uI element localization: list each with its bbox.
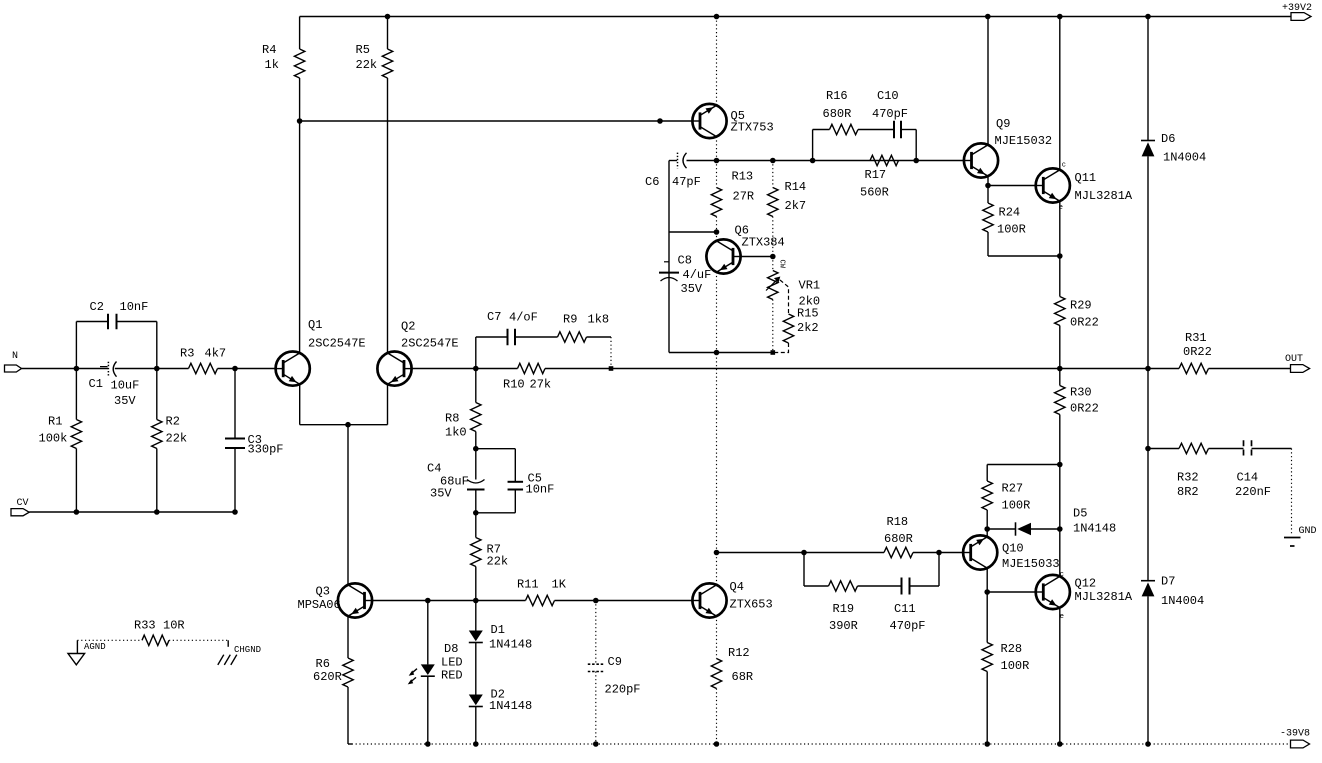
- svg-text:1N4004: 1N4004: [1163, 151, 1206, 165]
- resistor R11 1K: [526, 595, 555, 605]
- wire C10 to loop right riser: [901, 129, 916, 131]
- svg-text:0R22: 0R22: [1070, 402, 1099, 416]
- wire dotted Q5 collector to bias top: [716, 137, 718, 161]
- svg-text:MJL3281A: MJL3281A: [1075, 189, 1133, 203]
- wire tail to Q3 collector: [347, 425, 349, 585]
- ground AGND symbol: [76, 640, 78, 653]
- node R2 bottom on CV line: [154, 509, 160, 515]
- wire R9 to dropper: [587, 336, 612, 338]
- node VR1 bottom square junction: [771, 350, 776, 355]
- svg-text:R30: R30: [1070, 386, 1092, 400]
- transistor Q1 2SC2547E: [276, 352, 310, 386]
- transistor Q6 ZTX384 (Vbe multiplier): [706, 239, 740, 273]
- node Q6 emitter / bias bottom junction: [714, 350, 720, 356]
- svg-text:C8: C8: [678, 254, 692, 268]
- wire R19 to C11: [858, 585, 902, 587]
- VR1 wiper dashed link: [780, 280, 789, 314]
- node feedback junction (R8/R10/C7): [473, 366, 479, 372]
- transistor Q9 MJE15032: [964, 143, 998, 177]
- svg-text:R2: R2: [166, 415, 180, 429]
- svg-text:10nF: 10nF: [526, 483, 555, 497]
- wire driver line Q4 to R18: [717, 552, 885, 554]
- node Q9 collector rail junction: [985, 14, 991, 20]
- svg-text:100R: 100R: [997, 223, 1026, 237]
- svg-text:+39V2: +39V2: [1282, 3, 1312, 14]
- svg-text:R27: R27: [1002, 482, 1024, 496]
- node LED branch: [425, 598, 431, 604]
- svg-text:Q9: Q9: [996, 117, 1010, 131]
- wire R18 to Q10 base: [913, 552, 963, 554]
- svg-text:22k: 22k: [166, 432, 188, 446]
- wire D6/D7 link to D7: [1147, 449, 1149, 581]
- node C2 right / R2 junction: [154, 366, 160, 372]
- ground CHGND symbol: [227, 640, 229, 647]
- svg-text:4/oF: 4/oF: [509, 311, 538, 325]
- svg-text:R33: R33: [134, 619, 156, 633]
- svg-text:C9: C9: [608, 655, 622, 669]
- connector OUT flag: [1291, 365, 1310, 373]
- transistor Q12 MJL3281A: [1036, 575, 1070, 609]
- resistor R6 620R: [343, 658, 353, 687]
- node Q4 collector / driver line junction: [714, 550, 720, 556]
- svg-text:R9: R9: [563, 313, 577, 327]
- node D7 bottom: [1145, 741, 1151, 747]
- transistor Q3 MPSA06: [338, 583, 372, 617]
- wire dotted Q4 emitter to R12: [716, 616, 718, 658]
- svg-text:Q11: Q11: [1075, 171, 1097, 185]
- svg-text:2k7: 2k7: [785, 199, 807, 213]
- LED D8 RED: [427, 601, 429, 665]
- node Q10 collector / Q12 base / R28: [984, 589, 990, 595]
- svg-text:Q4: Q4: [730, 580, 744, 594]
- svg-text:C14: C14: [1237, 471, 1259, 485]
- svg-text:R11: R11: [517, 578, 539, 592]
- resistor R7 22k: [475, 513, 477, 538]
- resistor R24 100R: [987, 186, 989, 204]
- svg-text:10uF: 10uF: [111, 379, 140, 393]
- svg-text:1N4148: 1N4148: [489, 699, 532, 713]
- diode D2 1N4148: [475, 643, 477, 695]
- node R30 bottom junction: [1057, 462, 1063, 468]
- wire bias top line left: [669, 160, 677, 162]
- wire -39V bottom rail (dotted): [348, 743, 352, 745]
- svg-text:R1: R1: [48, 415, 62, 429]
- node Q1 collector / Q5 base tee: [297, 118, 303, 124]
- wire Q11 emitter down: [1059, 201, 1061, 296]
- svg-text:R15: R15: [797, 307, 819, 321]
- diode D1 1N4148: [475, 601, 477, 631]
- svg-text:Q12: Q12: [1075, 577, 1097, 591]
- wire Q10 collector down: [986, 568, 988, 592]
- node R24 / Q11 emitter junction: [1057, 253, 1063, 259]
- svg-text:1k: 1k: [265, 58, 279, 72]
- wire R31 to OUT: [1209, 368, 1291, 370]
- resistor R5 22k: [387, 17, 389, 50]
- capacitor C1 10uF 35V (electrolytic, in line): [100, 366, 108, 368]
- resistor R30 0R22: [1059, 369, 1061, 386]
- svg-text:D7: D7: [1161, 575, 1175, 589]
- svg-text:C1: C1: [89, 377, 103, 391]
- wire branch tee to Q6 collector node: [669, 231, 717, 233]
- svg-text:220nF: 220nF: [1235, 485, 1271, 499]
- node R12 bottom: [714, 741, 720, 747]
- svg-text:C6: C6: [645, 175, 659, 189]
- ground GND symbol: [1284, 537, 1301, 539]
- wire to Q12 base: [987, 591, 1035, 593]
- wire emitter join: [300, 424, 388, 426]
- svg-text:D6: D6: [1161, 132, 1175, 146]
- svg-text:GND: GND: [1299, 526, 1317, 537]
- connector CV (input return flag): [11, 509, 29, 516]
- svg-text:560R: 560R: [860, 186, 889, 200]
- svg-text:4/uF: 4/uF: [683, 268, 712, 282]
- svg-text:390R: 390R: [829, 619, 858, 633]
- trimmer VR1 2k0: [772, 257, 774, 271]
- wire Q3 emitter to R6: [347, 616, 349, 658]
- wire dotted Q4 collector up to driver line: [716, 553, 718, 585]
- svg-text:D8: D8: [444, 642, 458, 656]
- resistor R14 2k7 (dotted leads): [772, 161, 774, 188]
- wire Q12 emitter to bottom rail: [1059, 608, 1061, 744]
- svg-text:R8: R8: [445, 412, 459, 426]
- svg-text:1k8: 1k8: [588, 313, 610, 327]
- wire R11 to Q4 base: [555, 600, 693, 602]
- svg-text:10R: 10R: [163, 619, 185, 633]
- svg-text:1K: 1K: [552, 578, 567, 592]
- node C4 bottom / C5 bottom: [473, 510, 479, 516]
- wire dotted dropper to main line: [610, 337, 612, 369]
- svg-text:10nF: 10nF: [120, 300, 149, 314]
- resistor R10 27k: [518, 363, 546, 373]
- capacitor C10 470pF: [893, 121, 895, 139]
- svg-text:R5: R5: [356, 43, 370, 57]
- power flag +39V2: [1291, 13, 1311, 21]
- wire Q6 base to divider: [741, 256, 773, 258]
- svg-text:Q3: Q3: [316, 585, 330, 599]
- node R3 / C3 junction: [232, 366, 238, 372]
- svg-text:22k: 22k: [487, 555, 509, 569]
- resistor R16 680R: [830, 124, 859, 134]
- svg-text:R17: R17: [865, 168, 887, 182]
- resistor R27 100R: [986, 510, 988, 529]
- svg-text:Q2: Q2: [401, 320, 415, 334]
- svg-text:35V: 35V: [114, 394, 136, 408]
- node Q12 emitter bottom: [1057, 741, 1063, 747]
- svg-text:0R22: 0R22: [1183, 345, 1212, 359]
- wire C6 to Q5 collector node: [687, 160, 717, 162]
- svg-text:35V: 35V: [430, 487, 452, 501]
- svg-text:R6: R6: [316, 657, 330, 671]
- svg-text:R14: R14: [785, 180, 807, 194]
- svg-text:100R: 100R: [1001, 659, 1030, 673]
- transistor Q10 MJE15033: [963, 535, 997, 569]
- capacitor C5 10nF (parallel branch): [476, 448, 516, 450]
- svg-text:2k2: 2k2: [797, 321, 819, 335]
- node Zobel junction: [1145, 446, 1151, 452]
- svg-text:D1: D1: [491, 623, 505, 637]
- wire Q11 collector to rail: [1059, 17, 1061, 170]
- node C9 bottom: [593, 741, 599, 747]
- transistor Q2 2SC2547E: [377, 352, 411, 386]
- svg-text:680R: 680R: [823, 107, 852, 121]
- node D1/R7 branch: [473, 598, 479, 604]
- wire loop left riser: [812, 130, 814, 161]
- svg-text:OUT: OUT: [1285, 354, 1303, 365]
- svg-text:CW: CW: [778, 260, 786, 269]
- svg-text:AGND: AGND: [84, 642, 106, 652]
- transistor Q5 ZTX753: [692, 104, 726, 138]
- svg-text:2SC2547E: 2SC2547E: [401, 337, 459, 351]
- wire bias bottom line: [669, 352, 773, 354]
- svg-text:N: N: [12, 351, 18, 362]
- svg-text:1N4148: 1N4148: [489, 638, 532, 652]
- svg-text:ZTX753: ZTX753: [731, 121, 774, 135]
- node input / C2 / R1 junction: [74, 366, 80, 372]
- resistor R12 68R: [711, 659, 721, 689]
- svg-text:Q10: Q10: [1002, 542, 1024, 556]
- wire Q9 emitter: [987, 176, 989, 185]
- node tail junction: [345, 422, 351, 428]
- resistor R17 560R: [870, 155, 899, 165]
- wire R10 to output rail: [545, 368, 1179, 370]
- transistor Q11 MJL3281A: [1036, 168, 1070, 202]
- node R8 / C4 / C5 top: [473, 446, 479, 452]
- resistor R2 22k: [156, 369, 158, 420]
- node D2 bottom: [473, 741, 479, 747]
- svg-text:MJE15032: MJE15032: [995, 134, 1053, 148]
- node R19 loop right junction: [936, 550, 942, 556]
- capacitor C11 470pF: [901, 578, 903, 595]
- wire C7 to R9: [515, 336, 558, 338]
- node Q6 collector / R13 bottom junction: [714, 229, 720, 235]
- svg-text:35V: 35V: [681, 282, 703, 296]
- resistor R1 100k: [75, 369, 77, 420]
- svg-text:68R: 68R: [732, 670, 754, 684]
- capacitor C9 220pF (dotted branch): [595, 601, 597, 665]
- svg-text:D5: D5: [1073, 507, 1087, 521]
- node Q11 collector rail junction: [1057, 14, 1063, 20]
- svg-text:1N4148: 1N4148: [1073, 522, 1116, 536]
- wire dotted Q5 emitter to +39V rail: [716, 17, 718, 106]
- svg-text:R10: R10: [503, 378, 525, 392]
- capacitor C4 68uF 35V (electrolytic): [475, 449, 477, 480]
- wire Q1 collector node to Q5 base: [300, 120, 693, 122]
- resistor R13 27R (dotted leads): [716, 161, 718, 188]
- svg-text:c: c: [1062, 162, 1066, 170]
- resistor R33 10R: [142, 635, 169, 645]
- wire dotted Q6 emitter down: [716, 272, 718, 352]
- svg-text:R3: R3: [180, 347, 194, 361]
- wire C11 to loop right riser: [910, 585, 940, 587]
- svg-text:R16: R16: [826, 89, 848, 103]
- wire bias top line to Q9 base: [717, 160, 964, 162]
- node C9 branch: [593, 598, 599, 604]
- svg-text:R4: R4: [262, 43, 276, 57]
- svg-text:47pF: 47pF: [672, 175, 701, 189]
- wire R16 to C10: [858, 129, 894, 131]
- wire dotted Q6 collector stub: [716, 232, 718, 241]
- node R16 loop left junction: [810, 158, 816, 164]
- svg-text:C10: C10: [877, 89, 899, 103]
- capacitor C2 10nF (bypass loop): [75, 322, 77, 369]
- wire R3 to Q1 base: [218, 368, 276, 370]
- node output rail junction R29/R30: [1057, 366, 1063, 372]
- resistor R18 680R: [884, 547, 913, 557]
- svg-text:0R22: 0R22: [1070, 316, 1099, 330]
- capacitor C7: [507, 329, 509, 346]
- wire +39V top rail: [300, 16, 1291, 18]
- wire R19 loop drop left: [803, 553, 805, 587]
- svg-text:1k0: 1k0: [445, 426, 467, 440]
- node loop right junction: [913, 158, 919, 164]
- resistor R19 390R: [829, 581, 858, 591]
- node Q6 base / VR1 top: [770, 254, 776, 260]
- wire dotted AGND to R33: [77, 639, 142, 641]
- svg-text:CHGND: CHGND: [234, 645, 261, 655]
- node R14 top junction: [770, 158, 776, 164]
- svg-text:R13: R13: [732, 170, 754, 184]
- svg-text:27k: 27k: [530, 378, 552, 392]
- node R1 bottom on CV line: [74, 509, 80, 515]
- svg-text:ZTX653: ZTX653: [730, 598, 773, 612]
- node R5 top junction: [385, 14, 391, 20]
- svg-text:Q1: Q1: [308, 318, 322, 332]
- node Q5 emitter rail junction: [714, 14, 720, 20]
- capacitor C8 4u7F 35V (electrolytic): [664, 261, 669, 263]
- svg-text:R29: R29: [1070, 299, 1092, 313]
- wire C6 branch down: [668, 161, 670, 353]
- resistor R31 0R22: [1179, 363, 1209, 373]
- transistor Q4 ZTX653: [692, 583, 726, 617]
- svg-text:-39V8: -39V8: [1280, 729, 1310, 740]
- power flag -39V8: [1291, 740, 1310, 748]
- LED emission arrows: [411, 669, 418, 675]
- svg-text:22k: 22k: [356, 58, 378, 72]
- VR1 wiper arrow: [766, 279, 778, 290]
- diode D7 1N4004: [1141, 580, 1155, 582]
- svg-text:8R2: 8R2: [1177, 485, 1199, 499]
- node D5 anode / Q12 collector junction: [1057, 526, 1063, 532]
- svg-text:R18: R18: [887, 515, 909, 529]
- wire dotted to GND: [1291, 449, 1293, 536]
- svg-text:470pF: 470pF: [872, 107, 908, 121]
- wire R5 bottom to Q2 collector: [387, 78, 389, 353]
- svg-text:C11: C11: [894, 602, 916, 616]
- node Q5 collector / bias top junction: [714, 158, 720, 164]
- svg-text:R32: R32: [1177, 471, 1199, 485]
- svg-text:680R: 680R: [884, 532, 913, 546]
- svg-text:MJL3281A: MJL3281A: [1075, 590, 1133, 604]
- resistor R29 0R22: [1055, 297, 1065, 326]
- node R28 bottom: [984, 741, 990, 747]
- svg-text:C4: C4: [427, 462, 441, 476]
- resistor R4 1k: [299, 17, 301, 50]
- node R19 loop left junction: [801, 550, 807, 556]
- capacitor C7 4u7 + R9 loop riser: [475, 337, 477, 369]
- svg-text:ZTX384: ZTX384: [742, 236, 785, 250]
- wire output column to Q12 collector: [1059, 465, 1061, 577]
- diode D5 1N4148: [987, 528, 1015, 530]
- svg-text:470pF: 470pF: [890, 619, 926, 633]
- node D6 rail junction: [1145, 14, 1151, 20]
- wire Q9 collector to rail: [987, 17, 989, 145]
- wire D6 column to Zobel: [1147, 369, 1149, 449]
- wire Q10 emitter up: [986, 529, 988, 537]
- diode D6 1N4004: [1147, 17, 1149, 141]
- resistor R9 1k8: [558, 332, 587, 342]
- svg-text:R19: R19: [833, 602, 855, 616]
- svg-text:R28: R28: [1001, 642, 1023, 656]
- svg-text:1N4004: 1N4004: [1161, 594, 1204, 608]
- resistor R32 8R2: [1148, 448, 1179, 450]
- wire Q2 base to feedback node: [412, 368, 518, 370]
- connector N (input flag): [5, 365, 22, 372]
- wire CV line: [29, 511, 235, 513]
- svg-text:220pF: 220pF: [605, 683, 641, 697]
- svg-text:R31: R31: [1185, 331, 1207, 345]
- svg-text:C7: C7: [487, 310, 501, 324]
- capacitor C14 220nF: [1209, 448, 1244, 450]
- capacitor C3 330pF: [234, 369, 236, 439]
- wire Q3 base line: [372, 600, 525, 602]
- resistor R15 2k2: [783, 314, 793, 343]
- svg-text:c: c: [1060, 571, 1064, 579]
- resistor R28 100R: [986, 592, 988, 643]
- node Q9 emitter / R24 / Q11 base: [985, 183, 991, 189]
- svg-text:R24: R24: [999, 206, 1021, 220]
- wire R4 bottom to Q1 collector node: [299, 78, 301, 121]
- wire N to C1: [22, 368, 109, 370]
- svg-text:CV: CV: [17, 498, 29, 509]
- svg-text:VR1: VR1: [799, 279, 821, 293]
- svg-text:RED: RED: [441, 669, 463, 683]
- svg-text:MJE15033: MJE15033: [1002, 557, 1060, 571]
- wire dotted VAS net crossing mid rail: [716, 353, 718, 553]
- svg-text:LED: LED: [441, 656, 463, 670]
- wire Q1 emitter: [299, 384, 301, 425]
- svg-text:MPSA06: MPSA06: [298, 598, 341, 612]
- node square junction R9 loop to main line: [609, 366, 614, 371]
- wire Q2 emitter: [387, 384, 389, 425]
- svg-text:4k7: 4k7: [205, 347, 227, 361]
- resistor R8 1k0: [475, 369, 477, 403]
- wire C1 to R3: [115, 368, 189, 370]
- node D6/D7 column on output rail: [1145, 366, 1151, 372]
- svg-text:2SC2547E: 2SC2547E: [308, 337, 366, 351]
- junction on Q5 base wire: [657, 118, 663, 124]
- svg-text:R12: R12: [728, 646, 750, 660]
- resistor R3 4k7: [189, 363, 218, 373]
- capacitor C6 47pF (in line electrolytic style): [677, 153, 679, 169]
- wire Q1 collector: [299, 121, 301, 353]
- svg-text:100R: 100R: [1002, 499, 1031, 513]
- svg-text:330pF: 330pF: [248, 443, 284, 457]
- svg-text:100k: 100k: [39, 432, 68, 446]
- node Q10 emitter / R27 / D5: [984, 526, 990, 532]
- svg-text:C2: C2: [90, 300, 104, 314]
- node LED bottom: [425, 741, 431, 747]
- wire to Q11 base: [988, 185, 1036, 187]
- wire dotted R33 to CHGND: [169, 639, 228, 641]
- wire R27 top to output column: [987, 464, 1060, 466]
- svg-text:620R: 620R: [313, 670, 342, 684]
- node C3 bottom on CV line: [232, 509, 238, 515]
- svg-text:27R: 27R: [733, 190, 755, 204]
